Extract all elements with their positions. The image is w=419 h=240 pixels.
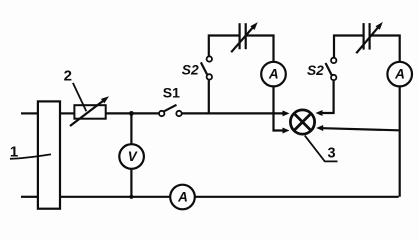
svg-text:A: A (394, 67, 405, 82)
svg-text:1: 1 (10, 144, 18, 161)
svg-text:2: 2 (64, 68, 72, 85)
svg-text:3: 3 (327, 145, 335, 161)
svg-text:V: V (128, 149, 138, 164)
svg-text:S1: S1 (163, 84, 180, 100)
svg-text:S2: S2 (182, 62, 199, 77)
svg-text:A: A (268, 67, 279, 82)
svg-text:A: A (177, 190, 188, 205)
svg-text:S2: S2 (307, 63, 324, 78)
